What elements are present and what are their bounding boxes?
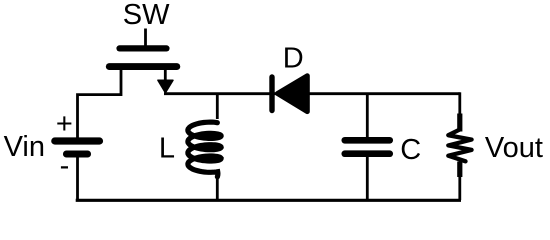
svg-text:SW: SW xyxy=(123,0,170,31)
svg-text:+: + xyxy=(56,108,73,140)
resistor Vout top lead xyxy=(457,114,462,132)
capacitor C bottom plate xyxy=(345,150,390,157)
transistor SW drain arrow xyxy=(158,80,173,93)
transistor SW gate bar xyxy=(120,45,167,51)
capacitor C bottom lead wire xyxy=(366,156,369,200)
resistor Vout zigzag xyxy=(448,130,471,162)
inductor L bottom lead wire xyxy=(216,177,219,200)
svg-text:Vout: Vout xyxy=(485,132,543,164)
resistor Vout bottom lead xyxy=(457,162,462,178)
battery Vin negative plate xyxy=(66,151,87,158)
transistor SW drain leg wire xyxy=(164,67,167,82)
wire battery bottom xyxy=(76,154,79,200)
diode D cathode bar xyxy=(269,77,274,111)
svg-text:D: D xyxy=(283,42,304,74)
wire source to battery top xyxy=(78,95,122,138)
svg-text:L: L xyxy=(159,133,175,165)
wire resistor to bottom rail xyxy=(458,176,461,200)
svg-text:Vin: Vin xyxy=(4,131,45,163)
transistor SW source leg wire xyxy=(120,67,123,96)
capacitor C top plate xyxy=(345,137,390,144)
svg-text:C: C xyxy=(400,134,421,166)
top rail wire xyxy=(164,92,460,95)
diode D triangle xyxy=(278,76,308,112)
capacitor C top lead wire xyxy=(366,94,369,138)
wire top rail right corner down xyxy=(458,92,461,114)
inductor L coil xyxy=(188,122,221,177)
bottom rail wire xyxy=(76,199,461,202)
inductor L top lead wire xyxy=(216,94,219,119)
transistor SW channel bar xyxy=(109,63,177,70)
transistor SW gate lead wire xyxy=(144,29,147,48)
battery Vin positive plate xyxy=(55,137,100,144)
